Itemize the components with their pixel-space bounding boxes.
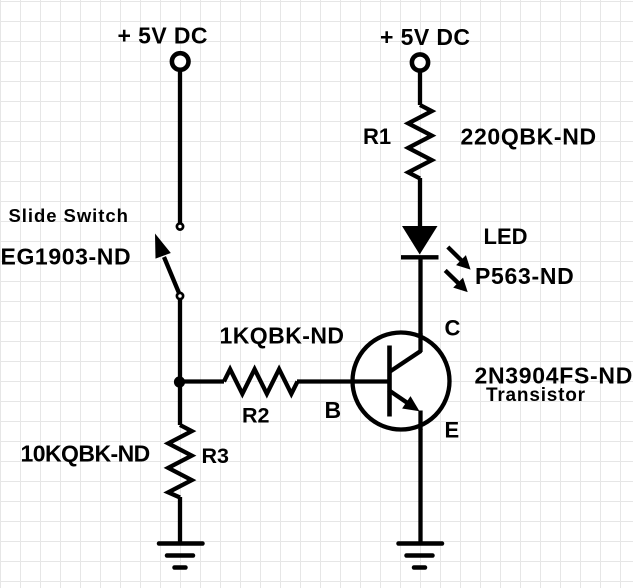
switch upper contact xyxy=(177,223,183,229)
emitter diagonal xyxy=(389,390,409,403)
ground right xyxy=(399,544,443,568)
transistor body circle xyxy=(353,333,450,430)
svg-text:1KQBK-ND: 1KQBK-ND xyxy=(220,323,345,349)
svg-text:+ 5V DC: + 5V DC xyxy=(118,23,208,49)
base bar xyxy=(387,346,392,417)
wire from switch to junction node xyxy=(178,299,182,425)
wire from left +5V terminal to switch xyxy=(178,70,182,223)
wire from R3 to left ground xyxy=(178,497,182,544)
svg-text:+ 5V DC: + 5V DC xyxy=(380,24,470,50)
resistor R3 xyxy=(168,425,192,498)
svg-text:B: B xyxy=(325,397,342,423)
switch lower contact xyxy=(177,293,183,299)
transistor Q1 2N3904 xyxy=(351,333,450,431)
power terminal +5V left xyxy=(172,53,189,70)
power terminal +5V right xyxy=(412,54,428,70)
svg-text:Slide Switch: Slide Switch xyxy=(9,205,129,226)
emitter arrowhead xyxy=(402,396,419,411)
base wire inside circle xyxy=(351,379,390,383)
resistor R2 xyxy=(224,369,298,394)
wire from right +5V terminal to R1 xyxy=(418,70,422,105)
svg-text:R3: R3 xyxy=(202,444,230,468)
LED emission arrow 2 xyxy=(445,270,468,292)
switch lever xyxy=(164,257,179,293)
svg-text:E: E xyxy=(445,417,460,442)
LED emission arrow 1 xyxy=(448,247,471,270)
svg-text:P563-ND: P563-ND xyxy=(475,263,575,289)
LED D1 xyxy=(401,226,439,257)
LED anode triangle xyxy=(402,226,438,255)
LED cathode bar xyxy=(401,255,439,259)
wire from transistor emitter to right ground xyxy=(418,429,422,544)
ground left xyxy=(159,544,203,568)
collector diagonal xyxy=(389,351,422,373)
wire from LED to transistor collector xyxy=(418,257,422,352)
svg-text:Transistor: Transistor xyxy=(486,385,586,406)
emitter wire inside circle xyxy=(418,411,422,431)
wire from R2 to transistor base xyxy=(297,379,390,383)
switch lever arrowhead xyxy=(155,234,171,259)
junction node xyxy=(174,376,185,387)
slide switch SW1 xyxy=(155,223,183,299)
wire from junction to R2 xyxy=(180,379,224,383)
svg-text:10KQBK-ND: 10KQBK-ND xyxy=(21,441,150,467)
svg-text:LED: LED xyxy=(484,224,528,249)
svg-text:C: C xyxy=(445,316,461,341)
wire from R1 to LED xyxy=(418,178,422,227)
svg-text:R2: R2 xyxy=(242,404,270,428)
resistor R1 xyxy=(408,105,432,179)
svg-text:220QBK-ND: 220QBK-ND xyxy=(461,124,597,150)
svg-text:EG1903-ND: EG1903-ND xyxy=(1,243,132,269)
svg-text:R1: R1 xyxy=(363,124,391,149)
collector wire inside circle xyxy=(418,333,422,352)
